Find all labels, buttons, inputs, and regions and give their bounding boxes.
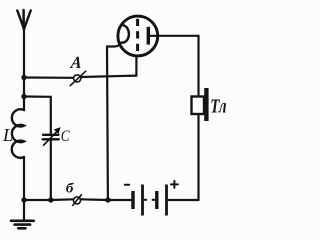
junction: capacitor/bottom wire (48, 197, 53, 202)
wire: terminal A to grid lead (81, 76, 136, 77)
tube V1 envelope (118, 16, 158, 56)
wire: capacitor to bottom (50, 139, 52, 200)
headphone Tl (192, 88, 209, 121)
svg-text:б: б (66, 181, 74, 196)
wire: grid lead vertical (135, 56, 137, 76)
capacitor C1 plates (43, 135, 59, 140)
junction: rail/tank top (21, 94, 26, 99)
tube anode bar (147, 27, 150, 45)
battery plus label (171, 181, 178, 188)
wire: bottom wire filament junction to battery minus (108, 199, 131, 201)
wire: anode to right rail (150, 35, 199, 37)
svg-text:L: L (2, 125, 13, 145)
junction: rail/A-wire (21, 75, 26, 80)
junction: ground/bottom wire (21, 197, 26, 202)
wire: headphone to bottom right corner (197, 114, 199, 200)
battery minus label (125, 184, 129, 186)
terminal A (70, 71, 86, 86)
terminal B (73, 195, 82, 206)
wire: tank top wire to capacitor branch (24, 97, 51, 134)
tube grid (dashed) (136, 19, 139, 51)
svg-text:A: A (69, 53, 83, 72)
svg-text:Тл: Тл (210, 95, 226, 116)
antenna (17, 10, 30, 29)
wire: left rail coil to bottom (23, 157, 25, 200)
variable capacitor arrow (44, 128, 60, 145)
wire: bottom wire capacitor junction to terminal B (51, 198, 74, 201)
wire: bottom wire left segment (ground junction to capacitor junction) (24, 199, 51, 201)
wire: left rail antenna to coil (23, 27, 25, 110)
inductor L1 coil (12, 109, 24, 158)
svg-text:C: C (61, 128, 70, 145)
ground (11, 200, 34, 228)
battery GB1 (133, 185, 167, 216)
junction: filament/bottom wire (105, 197, 110, 202)
wire: right rail top to headphone (197, 36, 199, 97)
wire: A wire from rail to terminal A (24, 76, 73, 79)
wire: filament lead horizontal and vertical (107, 43, 121, 47)
tube filament arc (122, 25, 129, 42)
wire: bottom wire battery plus to right corner (167, 199, 199, 201)
wire: bottom wire terminal B to filament junction (81, 198, 109, 201)
